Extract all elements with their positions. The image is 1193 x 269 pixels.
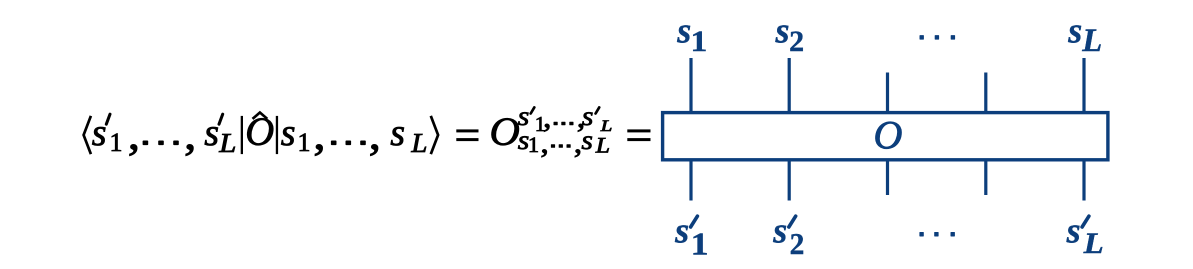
bottom dots (919, 232, 923, 237)
svg-text:2: 2 (790, 226, 805, 261)
svg-text:,: , (369, 111, 381, 160)
svg-text:1: 1 (691, 227, 709, 262)
bottom leg 5 (1082, 160, 1085, 201)
superscript comma dots comma (543, 101, 551, 134)
top leg 2 (788, 58, 791, 112)
svg-text:,: , (184, 111, 196, 160)
left angle bracket of bra (84, 116, 91, 154)
comma after s1 (313, 111, 325, 160)
top leg 3 (886, 73, 889, 113)
svg-text:1: 1 (528, 132, 539, 157)
svg-text:,: , (540, 126, 548, 159)
svg-text:s: s (1067, 11, 1082, 51)
svg-text:,: , (313, 111, 325, 160)
bottom leg 3 (886, 160, 889, 195)
right angle bracket of ket (431, 116, 438, 154)
svg-text:L: L (600, 117, 613, 135)
right vertical bar (276, 116, 278, 154)
svg-text:L: L (595, 134, 610, 158)
left vertical bar (241, 116, 243, 154)
tensor symbol O (490, 109, 520, 154)
svg-text:O: O (490, 109, 520, 154)
first equals sign (456, 129, 478, 132)
svg-text:1: 1 (110, 128, 123, 157)
svg-text:s: s (674, 210, 689, 250)
bottom leg 2 (788, 160, 791, 201)
svg-text:s: s (772, 210, 787, 250)
svg-text:s: s (581, 126, 593, 155)
svg-text:2: 2 (789, 25, 804, 58)
svg-text:1: 1 (691, 24, 708, 57)
top leg 5 (1082, 58, 1085, 112)
svg-text:,: , (128, 111, 140, 160)
bottom leg 1 (689, 160, 692, 201)
svg-text:O: O (874, 113, 903, 158)
top dots (920, 35, 924, 40)
ellipsis dots in ket (331, 141, 337, 146)
svg-text:1: 1 (298, 128, 311, 157)
comma before sL (369, 111, 381, 160)
second equals sign (627, 129, 650, 132)
ellipsis dots in bra (143, 141, 149, 146)
svg-text:s: s (92, 112, 107, 154)
superscript s'1 (518, 102, 530, 131)
svg-text:s: s (204, 112, 219, 154)
svg-text:s: s (775, 11, 790, 51)
svg-text:s: s (281, 112, 296, 154)
subscript sL (581, 126, 593, 155)
svg-text:L: L (1083, 226, 1104, 259)
svg-text:s: s (1066, 210, 1081, 250)
svg-text:L: L (410, 129, 427, 159)
subscript s1 (518, 126, 530, 155)
tensor box (663, 113, 1108, 160)
top leg 4 (984, 73, 987, 113)
top leg 1 (689, 58, 692, 112)
svg-text:L: L (1081, 23, 1102, 59)
subscript comma dots comma (540, 126, 548, 159)
comma before s'L (184, 111, 196, 160)
svg-text:L: L (218, 128, 236, 158)
svg-text:s: s (390, 112, 405, 154)
svg-text:s: s (676, 11, 691, 51)
bottom leg 4 (984, 160, 987, 195)
svg-text:O: O (245, 109, 274, 154)
comma after s'1 (128, 111, 140, 160)
superscript s'L (582, 102, 594, 131)
